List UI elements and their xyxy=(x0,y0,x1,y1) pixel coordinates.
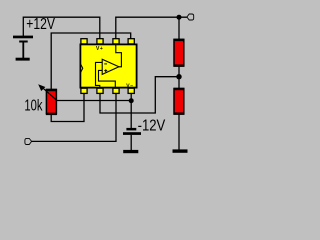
resistor R2 xyxy=(174,89,184,115)
potentiometer 10k body xyxy=(46,90,56,114)
pin 8 bottom H (V-) xyxy=(128,88,134,93)
wire junction to resistor R1 xyxy=(178,17,180,39)
pin 3 top C (output) xyxy=(113,39,119,44)
wire R1 to R2 xyxy=(178,67,180,89)
wire inverting input to pin F inside xyxy=(96,62,103,88)
battery B1 short plate xyxy=(19,41,28,43)
op-amp triangle xyxy=(102,59,119,74)
op-amp U1 DIP body xyxy=(80,44,136,87)
resistor R1 top cap xyxy=(174,39,185,41)
resistor R1 bottom cap xyxy=(174,64,185,66)
svg-text:+12V: +12V xyxy=(26,15,55,33)
potentiometer top cap xyxy=(46,89,57,91)
potentiometer wiper arrowhead xyxy=(38,84,45,91)
notch xyxy=(81,64,83,72)
wire pot bottom to pin E xyxy=(51,93,84,121)
wire +12V battery to pin B (V+) xyxy=(23,17,100,38)
node dot wiper/-12V xyxy=(129,98,134,103)
pin 1 top A xyxy=(81,39,87,44)
resistor R1 xyxy=(174,39,184,66)
pin 2 top B (V+) xyxy=(97,39,103,44)
ground bar center xyxy=(123,150,138,153)
pin 7 bottom G (non-inverting in) xyxy=(113,88,119,93)
pin 4 top D xyxy=(128,39,134,44)
wire non-inverting input to pin G inside xyxy=(99,70,116,88)
wire battery B2 to ground xyxy=(130,135,132,150)
wire feedback: pot top to pin D xyxy=(51,33,131,89)
output terminal xyxy=(187,14,194,20)
potentiometer bottom cap xyxy=(46,113,57,115)
wire input terminal to pin G xyxy=(31,93,116,141)
wire pin H down to battery B2 xyxy=(130,93,132,128)
wire output to pin C inside xyxy=(116,44,122,67)
wire op-amp output pin C to output terminal xyxy=(116,17,187,38)
wire wiper to -12V node xyxy=(57,100,132,102)
potentiometer wiper diagonal xyxy=(42,87,57,100)
minus sign inverting input xyxy=(104,63,107,65)
battery B2 -12V short plate xyxy=(126,128,136,130)
wire R2 to ground xyxy=(178,115,180,150)
svg-text:-12V: -12V xyxy=(138,117,166,134)
pin 6 bottom F (inverting in) xyxy=(97,88,103,93)
node dot divider midpoint xyxy=(176,74,181,79)
wire battery B1 to ground xyxy=(22,43,24,59)
ground bar left xyxy=(16,58,30,61)
resistor R2 top cap xyxy=(174,88,185,90)
wire pin F to resistor divider midpoint xyxy=(100,77,177,113)
battery B1 +12V long plate xyxy=(13,36,33,39)
ground bar right xyxy=(173,149,188,152)
input terminal xyxy=(25,138,32,144)
node junction dot top right xyxy=(177,15,182,20)
resistor R2 bottom cap xyxy=(174,112,185,114)
pin 5 bottom E xyxy=(81,88,87,93)
plus sign non-inverting input xyxy=(104,69,107,72)
battery B2 -12V long plate xyxy=(123,132,141,135)
svg-text:V+: V+ xyxy=(96,46,103,52)
svg-text:V–: V– xyxy=(126,83,133,89)
svg-text:10k: 10k xyxy=(24,96,42,115)
